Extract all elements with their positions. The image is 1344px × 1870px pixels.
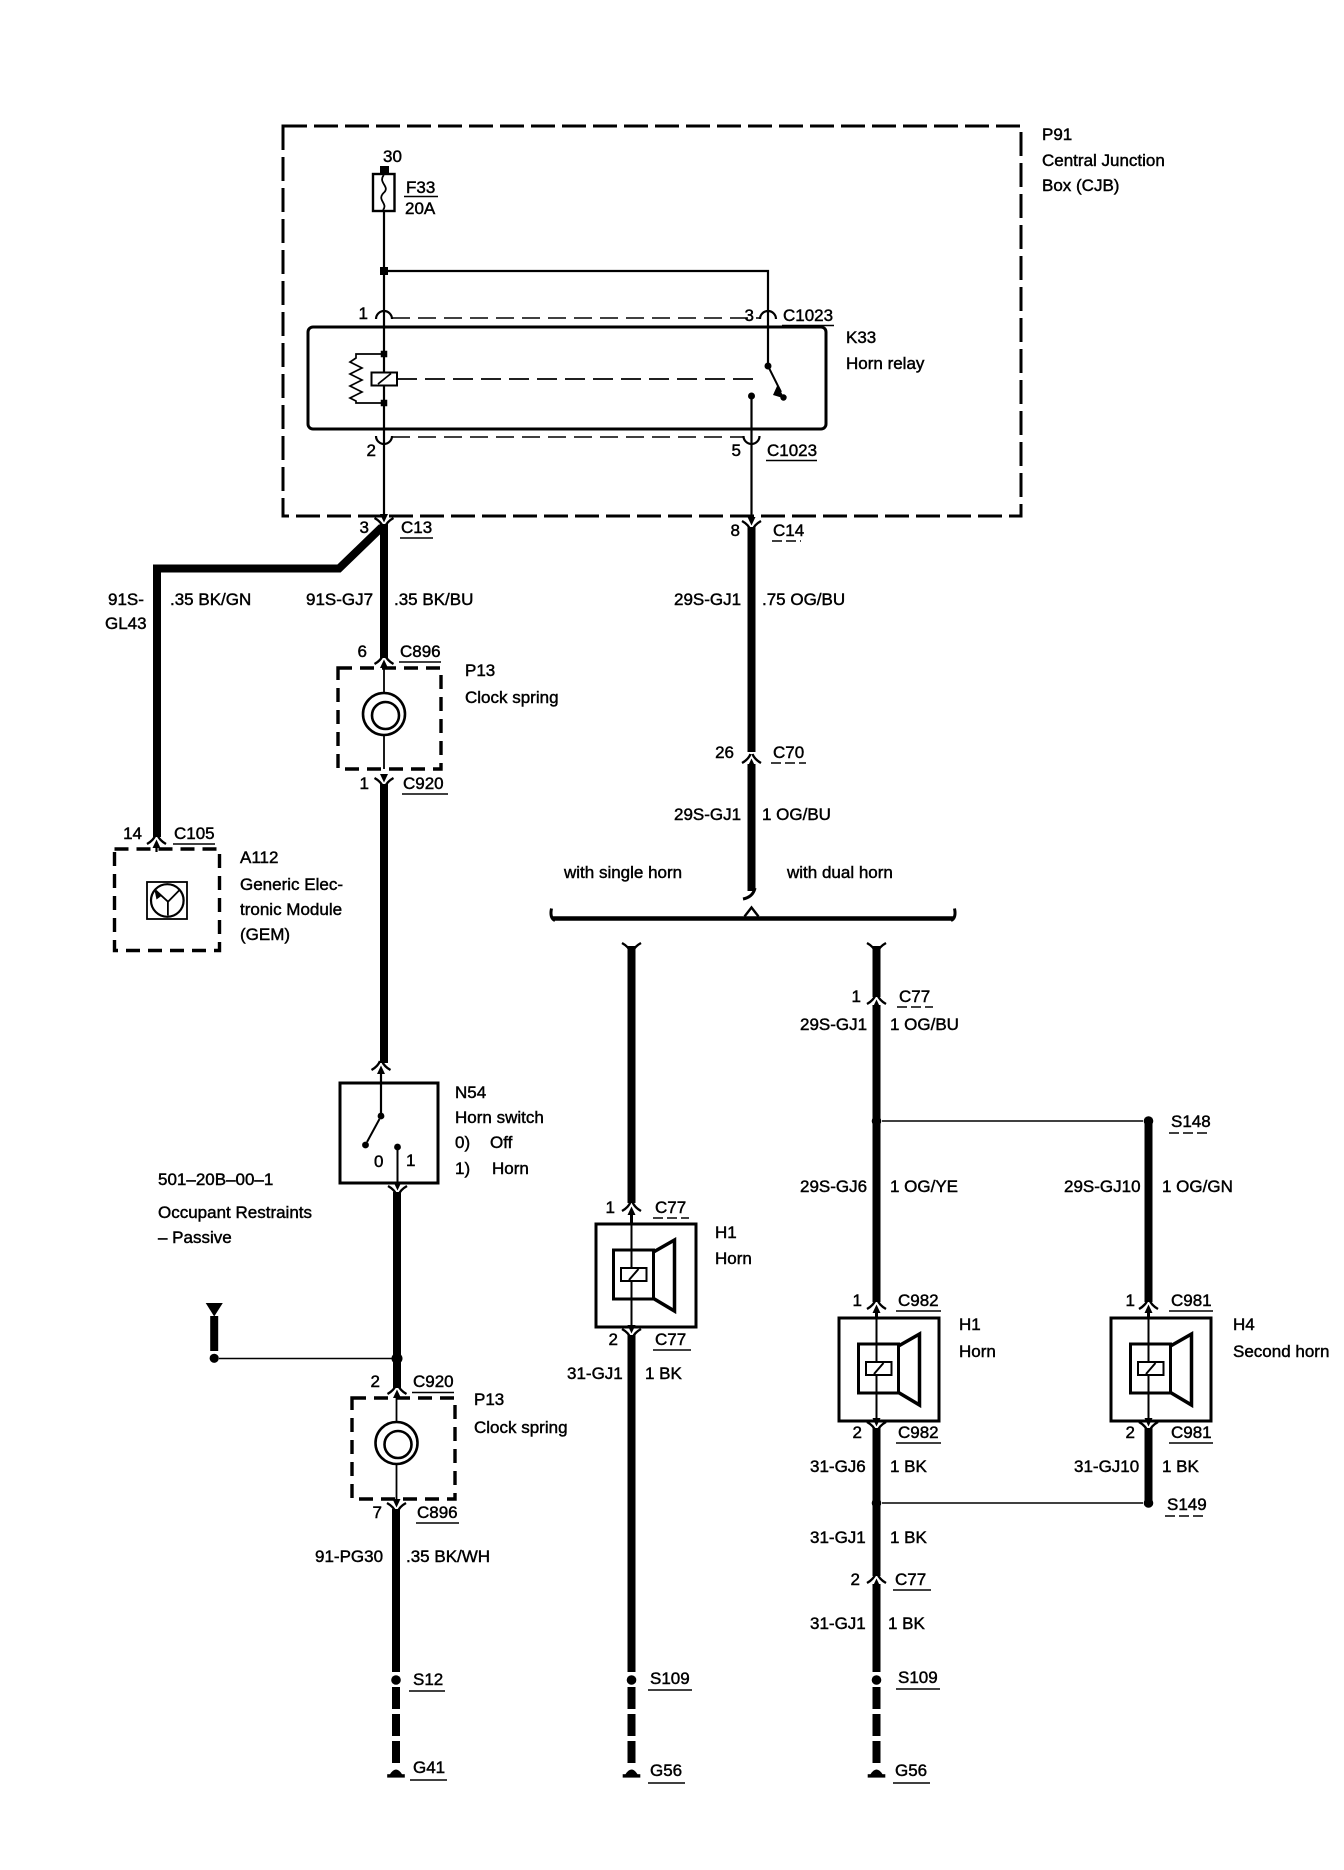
label 1 C981	[1126, 1291, 1213, 1311]
off-page arrow to occupant restraints	[206, 1303, 223, 1363]
connector C77 pin 1 single	[622, 1202, 641, 1215]
svg-text:S109: S109	[650, 1669, 690, 1688]
svg-text:3: 3	[360, 518, 369, 537]
label 1 C77 single	[606, 1198, 689, 1218]
relay switch pivot dot	[765, 363, 772, 370]
wire splice S149 link	[882, 1502, 1143, 1504]
svg-text:S109: S109	[898, 1668, 938, 1687]
wire label 91S-GL43	[105, 590, 147, 633]
connector at N54 exit	[388, 1182, 407, 1195]
junction dot off-page tap	[392, 1353, 403, 1364]
connector arc pin 1	[376, 311, 392, 319]
label H1 Horn dual	[959, 1315, 996, 1361]
wire feed to relay pin 3	[384, 271, 768, 327]
label 26 C70	[715, 743, 806, 763]
GEM module icon	[147, 882, 187, 919]
label 14 C105	[123, 824, 215, 844]
label S109 single	[648, 1669, 692, 1690]
wire H4 to S149 (31-GJ10 1 BK)	[1145, 1428, 1153, 1503]
switch blade	[367, 1119, 380, 1142]
wire relay pin 2 to C13	[383, 429, 385, 519]
svg-text:29S-GJ1: 29S-GJ1	[674, 590, 741, 609]
svg-text:Off: Off	[490, 1133, 513, 1152]
svg-text:C13: C13	[401, 518, 432, 537]
junction dot coil bottom	[381, 400, 388, 407]
svg-text:K33: K33	[846, 328, 876, 347]
wire C13 to C896 (91S-GJ7)	[380, 524, 388, 658]
switch common wire	[380, 1083, 382, 1114]
svg-text:N54: N54	[455, 1083, 486, 1102]
connector C77 pin 2 dual	[867, 1574, 886, 1587]
connector C981 pin 2	[1139, 1418, 1158, 1431]
svg-text:tronic Module: tronic Module	[240, 900, 342, 919]
label S148	[1169, 1112, 1211, 1133]
svg-text:P13: P13	[465, 661, 495, 680]
svg-text:2: 2	[853, 1423, 862, 1442]
label P13 Clock spring 2	[474, 1390, 568, 1437]
svg-text:30: 30	[383, 147, 402, 166]
svg-text:2: 2	[851, 1570, 860, 1589]
svg-text:Horn switch: Horn switch	[455, 1108, 544, 1127]
svg-text:F33: F33	[406, 178, 435, 197]
svg-text:1: 1	[359, 304, 368, 323]
svg-text:G41: G41	[413, 1758, 445, 1777]
label 2 C77 single	[609, 1330, 691, 1350]
single horn wire start connector	[622, 943, 641, 952]
connector C896 pin 6	[375, 655, 394, 668]
svg-text:.35 BK/WH: .35 BK/WH	[406, 1547, 490, 1566]
label C1023 top	[782, 306, 834, 326]
svg-text:1: 1	[852, 987, 861, 1006]
svg-text:31-GJ1: 31-GJ1	[567, 1364, 623, 1383]
svg-text:1: 1	[360, 774, 369, 793]
svg-text:P13: P13	[474, 1390, 504, 1409]
svg-text:C920: C920	[413, 1372, 454, 1391]
svg-text:C982: C982	[898, 1291, 939, 1310]
wire N54 to C920 pin 2	[393, 1192, 401, 1388]
relay switch common wire	[767, 327, 769, 366]
svg-text:20A: 20A	[405, 199, 436, 218]
label 3 C13	[360, 518, 433, 538]
splice S109 dot single	[627, 1675, 637, 1685]
svg-text:1 OG/BU: 1 OG/BU	[762, 805, 831, 824]
label G41	[410, 1758, 447, 1780]
label G56 single	[648, 1761, 685, 1783]
svg-text:S149: S149	[1167, 1495, 1207, 1514]
svg-text:.35 BK/BU: .35 BK/BU	[394, 590, 473, 609]
connector C982 pin 2	[867, 1418, 886, 1431]
splice S149 dot left	[872, 1498, 882, 1508]
label C1023 bottom	[766, 441, 817, 461]
svg-text:C1023: C1023	[767, 441, 817, 460]
label 2 C981	[1126, 1423, 1213, 1443]
svg-text:(GEM): (GEM)	[240, 925, 290, 944]
svg-text:31-GJ10: 31-GJ10	[1074, 1457, 1139, 1476]
svg-text:14: 14	[123, 824, 142, 843]
A112 GEM dashed box	[115, 849, 220, 951]
svg-text:2: 2	[371, 1372, 380, 1391]
junction node on feed wire	[380, 267, 388, 275]
svg-text:1 OG/YE: 1 OG/YE	[890, 1177, 958, 1196]
svg-text:G56: G56	[895, 1761, 927, 1780]
svg-text:0): 0)	[455, 1133, 470, 1152]
wire bus to H1 single horn	[628, 946, 636, 1203]
label 2 C77 dual	[851, 1570, 931, 1590]
wire C920 to N54 horn switch	[380, 784, 388, 1063]
svg-text:Second horn: Second horn	[1233, 1342, 1329, 1361]
H1 single horn entry stub	[630, 1212, 633, 1224]
svg-text:29S-GJ10: 29S-GJ10	[1064, 1177, 1141, 1196]
svg-text:C981: C981	[1171, 1423, 1212, 1442]
svg-text:C70: C70	[773, 743, 804, 762]
svg-text:C14: C14	[773, 521, 804, 540]
label S12	[409, 1670, 445, 1691]
svg-text:S148: S148	[1171, 1112, 1211, 1131]
connector C981 pin 1	[1139, 1300, 1158, 1313]
relay coil symbol box	[372, 373, 398, 386]
connector C896 pin 7	[387, 1499, 406, 1512]
svg-text:29S-GJ1: 29S-GJ1	[674, 805, 741, 824]
svg-text:Occupant Restraints: Occupant Restraints	[158, 1203, 312, 1222]
splice S109 dot dual	[872, 1675, 882, 1685]
relay K33 box	[308, 327, 826, 429]
wire off-page arrow to horn feed	[219, 1358, 394, 1360]
svg-text:91S-: 91S-	[108, 590, 144, 609]
svg-text:H1: H1	[959, 1315, 981, 1334]
wire branch 91S-GL43 to GEM	[157, 527, 382, 837]
P13 clock spring box 1	[338, 668, 441, 769]
label 2 C920	[371, 1372, 454, 1393]
svg-text:.35 BK/GN: .35 BK/GN	[170, 590, 251, 609]
splice S148 dot left	[872, 1116, 882, 1126]
connector at N54 entry	[372, 1061, 391, 1074]
svg-text:C77: C77	[655, 1330, 686, 1349]
connector C920 pin 2	[388, 1385, 407, 1398]
wire S149 to C77 (31-GJ1 1 BK)	[873, 1503, 881, 1576]
fuse F33 20A	[373, 174, 395, 211]
wire C70 to splice bus (29S-GJ1 1 OG/BU)	[743, 764, 755, 899]
wire bus to C77 dual	[873, 946, 881, 997]
svg-text:1 BK: 1 BK	[890, 1457, 928, 1476]
connector arc pin 2	[376, 436, 392, 444]
svg-text:31-GJ6: 31-GJ6	[810, 1457, 866, 1476]
svg-text:29S-GJ6: 29S-GJ6	[800, 1177, 867, 1196]
svg-text:6: 6	[358, 642, 367, 661]
label G56 dual	[893, 1761, 930, 1783]
label 501-20B-00-1 Occupant Restraints - Passive	[158, 1170, 312, 1247]
connector C105	[147, 835, 166, 848]
relay actuation dashed link	[397, 378, 758, 380]
svg-text:Horn relay: Horn relay	[846, 354, 925, 373]
svg-text:C982: C982	[898, 1423, 939, 1442]
option splice bus	[551, 908, 955, 921]
H1 horn box single	[596, 1224, 696, 1327]
wire C14 to C70 (29S-GJ1 .75 OG/BU)	[748, 527, 756, 752]
N54 entry stub	[380, 1071, 382, 1083]
svg-text:A112: A112	[240, 848, 278, 867]
label A112 GEM	[240, 848, 343, 944]
svg-text:Horn: Horn	[492, 1159, 529, 1178]
svg-text:C896: C896	[400, 642, 441, 661]
label F33 / 20A	[404, 178, 438, 218]
svg-text:2: 2	[367, 441, 376, 460]
wire C77 to S148 (29S-GJ1 1 OG/BU)	[873, 1005, 881, 1124]
svg-text:1 BK: 1 BK	[890, 1528, 928, 1547]
svg-text:C77: C77	[655, 1198, 686, 1217]
svg-text:1: 1	[853, 1291, 862, 1310]
svg-text:– Passive: – Passive	[158, 1228, 232, 1247]
label H4 Second horn	[1233, 1315, 1329, 1361]
ground G56 single	[623, 1770, 641, 1778]
svg-text:P91: P91	[1042, 125, 1072, 144]
svg-text:H4: H4	[1233, 1315, 1255, 1334]
connector C920 pin 1	[375, 774, 394, 787]
ground G41	[387, 1770, 405, 1778]
svg-text:7: 7	[373, 1503, 382, 1522]
wire S12 to G41	[392, 1687, 400, 1764]
H4 entry stub	[1147, 1310, 1150, 1318]
junction dot coil top	[381, 351, 388, 358]
svg-text:26: 26	[715, 743, 734, 762]
wire S109 to G56 single	[628, 1687, 636, 1764]
wire C896 to S12 (91-PG30)	[392, 1509, 400, 1672]
svg-text:0: 0	[374, 1152, 383, 1171]
relay coil resistance element	[350, 354, 384, 403]
svg-text:1: 1	[1126, 1291, 1135, 1310]
P13 clock spring box 2	[352, 1398, 455, 1499]
label P91 Central Junction Box (CJB)	[1042, 125, 1165, 195]
switch contact 1 dot	[394, 1144, 401, 1151]
wire S109 to G56 dual	[873, 1687, 881, 1764]
svg-text:501–20B–00–1: 501–20B–00–1	[158, 1170, 273, 1189]
svg-text:2: 2	[609, 1330, 618, 1349]
label P13 Clock spring 1	[465, 661, 559, 707]
splice S148 dot right	[1144, 1116, 1154, 1126]
connector C77 pin 2 single	[622, 1325, 641, 1338]
svg-text:with dual horn: with dual horn	[786, 863, 893, 882]
svg-text:GL43: GL43	[105, 614, 147, 633]
label S109 dual	[896, 1668, 940, 1689]
label K33 Horn relay	[846, 328, 925, 373]
relay switch blade	[768, 366, 787, 401]
splice S12 dot	[391, 1675, 401, 1685]
wire splice S148 link	[882, 1120, 1143, 1122]
svg-text:31-GJ1: 31-GJ1	[810, 1528, 866, 1547]
ground G56 dual	[868, 1770, 886, 1778]
H4 second horn box	[1111, 1318, 1211, 1421]
switch blade end dot	[362, 1142, 369, 1149]
svg-text:C77: C77	[899, 987, 930, 1006]
wire H1 single to S109 (31-GJ1 1 BK)	[628, 1335, 636, 1672]
svg-text:C981: C981	[1171, 1291, 1212, 1310]
svg-text:with single horn: with single horn	[563, 863, 682, 882]
relay contact 5 wire	[750, 396, 752, 429]
N54 horn switch box	[340, 1083, 438, 1183]
svg-text:1: 1	[406, 1151, 415, 1170]
wire C77 to S109 dual (31-GJ1 1 BK)	[873, 1584, 881, 1672]
svg-text:8: 8	[731, 521, 740, 540]
P91 Central Junction Box (CJB) dashed enclosure	[283, 126, 1021, 516]
connector C1023 plane bottom dashed line	[392, 436, 744, 438]
connector C1023 plane top dashed line	[392, 317, 760, 319]
wire relay pin 5 to C14	[750, 429, 752, 520]
wire fuse F33 to relay pin 1	[383, 211, 385, 327]
svg-text:1 OG/BU: 1 OG/BU	[890, 1015, 959, 1034]
svg-text:C77: C77	[895, 1570, 926, 1589]
svg-text:.75 OG/BU: .75 OG/BU	[762, 590, 845, 609]
svg-text:C896: C896	[417, 1503, 458, 1522]
svg-text:C1023: C1023	[783, 306, 833, 325]
relay contact 5 dot	[748, 393, 755, 400]
svg-text:Box (CJB): Box (CJB)	[1042, 176, 1119, 195]
svg-text:Clock spring: Clock spring	[465, 688, 559, 707]
label 7 C896	[373, 1503, 459, 1523]
svg-text:5: 5	[732, 441, 741, 460]
label 8 C14	[731, 521, 805, 541]
svg-text:C920: C920	[403, 774, 444, 793]
label 1 C982	[853, 1291, 941, 1311]
svg-text:2: 2	[1126, 1423, 1135, 1442]
connector C77 pin 1 dual	[867, 995, 886, 1008]
connector arc pin 5	[744, 436, 760, 444]
label 2 C982	[853, 1423, 941, 1443]
svg-text:Horn: Horn	[959, 1342, 996, 1361]
svg-text:1 BK: 1 BK	[645, 1364, 683, 1383]
wire S148 to H4 (29S-GJ10 1 OG/GN)	[1145, 1121, 1153, 1302]
svg-text:H1: H1	[715, 1223, 737, 1242]
label 1 C77 dual	[852, 987, 933, 1007]
svg-text:91-PG30: 91-PG30	[315, 1547, 383, 1566]
label 6 C896	[358, 642, 441, 662]
H1 horn box dual	[839, 1318, 939, 1421]
svg-text:Horn: Horn	[715, 1249, 752, 1268]
GEM wire stub	[155, 845, 157, 852]
label N54 Horn switch	[455, 1083, 544, 1178]
connector C13	[375, 514, 394, 527]
H1 dual entry stub	[875, 1310, 878, 1318]
pin 30 junction square	[380, 166, 389, 175]
svg-text:S12: S12	[413, 1670, 443, 1689]
switch contact wire	[397, 1147, 399, 1183]
dual horn wire start connector	[867, 943, 886, 952]
label H1 Horn single	[715, 1223, 752, 1268]
connector C982 pin 1	[867, 1300, 886, 1313]
svg-text:G56: G56	[650, 1761, 682, 1780]
wire H1 dual to S149 (31-GJ6 1 BK)	[873, 1428, 881, 1503]
wire S148 to H1 dual (29S-GJ6 1 OG/YE)	[873, 1121, 881, 1302]
svg-text:29S-GJ1: 29S-GJ1	[800, 1015, 867, 1034]
switch pivot dot	[378, 1113, 385, 1120]
label 1 C920	[360, 774, 448, 794]
svg-text:Generic Elec-: Generic Elec-	[240, 875, 343, 894]
svg-text:C105: C105	[174, 824, 215, 843]
connector C70 pin 26	[742, 754, 761, 767]
svg-text:3: 3	[745, 306, 754, 325]
svg-text:Clock spring: Clock spring	[474, 1418, 568, 1437]
connector arc pin 3	[760, 311, 776, 319]
svg-text:91S-GJ7: 91S-GJ7	[306, 590, 373, 609]
relay coil wire pin1 to pin2	[383, 327, 385, 429]
svg-text:Central Junction: Central Junction	[1042, 151, 1165, 170]
svg-text:1 OG/GN: 1 OG/GN	[1162, 1177, 1233, 1196]
label S149	[1165, 1495, 1207, 1516]
svg-text:1 BK: 1 BK	[888, 1614, 926, 1633]
svg-text:31-GJ1: 31-GJ1	[810, 1614, 866, 1633]
svg-text:1): 1)	[455, 1159, 470, 1178]
svg-text:1: 1	[606, 1198, 615, 1217]
svg-text:1 BK: 1 BK	[1162, 1457, 1200, 1476]
connector C14	[742, 517, 761, 530]
splice S149 dot right	[1144, 1498, 1154, 1508]
